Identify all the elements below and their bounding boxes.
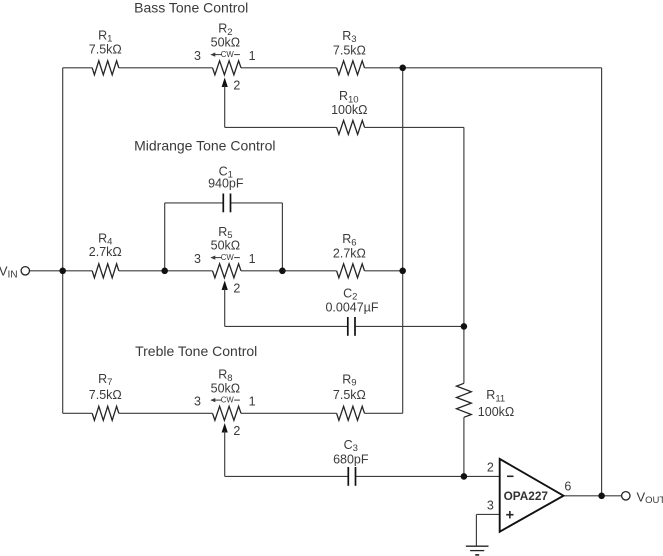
svg-text:2.7kΩ: 2.7kΩ — [333, 247, 366, 261]
svg-text:100kΩ: 100kΩ — [478, 405, 514, 419]
svg-text:3: 3 — [194, 395, 201, 409]
svg-text:3: 3 — [194, 49, 201, 63]
svg-text:2: 2 — [233, 79, 240, 93]
svg-text:680pF: 680pF — [333, 453, 369, 467]
svg-text:6: 6 — [564, 480, 571, 494]
svg-text:2: 2 — [233, 282, 240, 296]
svg-text:CW: CW — [221, 50, 235, 59]
svg-text:CW: CW — [221, 396, 235, 405]
svg-text:Bass Tone Control: Bass Tone Control — [134, 0, 248, 15]
svg-text:CW: CW — [221, 253, 235, 262]
svg-text:7.5kΩ: 7.5kΩ — [333, 388, 366, 402]
svg-text:7.5kΩ: 7.5kΩ — [333, 43, 366, 57]
svg-text:2: 2 — [487, 461, 494, 475]
svg-text:2.7kΩ: 2.7kΩ — [89, 245, 122, 259]
svg-text:Treble Tone Control: Treble Tone Control — [135, 343, 257, 359]
svg-text:100kΩ: 100kΩ — [331, 103, 367, 117]
svg-text:OPA227: OPA227 — [504, 489, 549, 503]
svg-text:3: 3 — [487, 499, 494, 513]
svg-text:50kΩ: 50kΩ — [211, 239, 241, 253]
svg-text:2: 2 — [233, 424, 240, 438]
svg-text:50kΩ: 50kΩ — [211, 35, 241, 49]
svg-text:0.0047µF: 0.0047µF — [325, 300, 378, 314]
svg-text:7.5kΩ: 7.5kΩ — [89, 388, 122, 402]
svg-text:1: 1 — [249, 49, 256, 63]
svg-text:50kΩ: 50kΩ — [211, 381, 241, 395]
svg-text:1: 1 — [249, 252, 256, 266]
svg-text:Midrange Tone Control: Midrange Tone Control — [134, 138, 275, 154]
svg-text:1: 1 — [249, 395, 256, 409]
svg-text:3: 3 — [194, 252, 201, 266]
svg-text:7.5kΩ: 7.5kΩ — [89, 43, 122, 57]
svg-text:940pF: 940pF — [208, 177, 244, 191]
